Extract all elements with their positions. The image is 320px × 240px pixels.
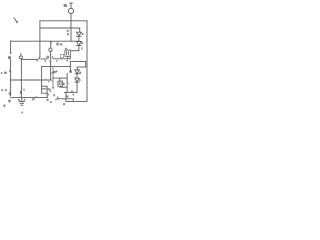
vertical x53	[52, 66, 54, 88]
component box R2	[42, 86, 48, 93]
tick below y80 junction	[52, 81, 53, 82]
D2 lower label	[81, 47, 83, 49]
wire y59 right segment	[54, 58, 71, 60]
D3 label	[79, 72, 81, 74]
wire y98.8	[58, 98, 73, 100]
current label row	[56, 43, 58, 46]
lower diode D3	[75, 70, 80, 74]
label 16 (supply)	[64, 4, 67, 7]
wire between diodes	[78, 36, 80, 41]
label right of wire	[52, 56, 54, 58]
label above box R1	[65, 48, 67, 50]
pin label text	[67, 30, 69, 32]
connector box corner	[69, 56, 71, 59]
arc joining vertical to horizontal	[37, 56, 40, 59]
vertical x41.6 down	[41, 66, 43, 86]
label 12	[8, 56, 11, 59]
wire to current source	[22, 58, 36, 60]
tick on y80	[45, 79, 46, 80]
label left	[56, 70, 58, 72]
figure pointer arrow	[14, 18, 18, 24]
tick on left wire	[9, 71, 11, 72]
input wire left with arrowhead	[10, 41, 12, 54]
wire diode stack to box R1	[70, 50, 79, 52]
vertical x67.1	[66, 74, 68, 93]
ground bars	[19, 101, 24, 105]
wire below R3	[60, 86, 67, 88]
outer box right edge	[86, 21, 88, 102]
vertical from I2 down to y80	[50, 52, 52, 81]
faint label below ground	[21, 112, 23, 114]
lower diode D4	[75, 78, 80, 82]
blob on x67.1	[67, 83, 69, 85]
blob on x53	[53, 71, 55, 73]
label box left of R1	[61, 54, 64, 57]
current source circle I2	[49, 48, 52, 51]
branch arrow below y41 at x50.8	[50, 42, 52, 44]
wire y66	[42, 65, 71, 67]
label pair near y61	[45, 60, 46, 62]
tiny label under wire	[36, 60, 38, 61]
D4 label	[79, 79, 81, 81]
vertical from circle down	[20, 59, 22, 97]
hook blob near bottom of left wire	[9, 92, 10, 95]
supply stub wire	[70, 3, 72, 8]
wire below D2	[78, 46, 80, 51]
arrowhead onto bottom rail	[10, 95, 12, 97]
stub below box R1	[67, 56, 69, 59]
label left of R3	[48, 81, 49, 82]
blob on wire	[20, 91, 21, 94]
corner down to diode stack	[79, 28, 81, 32]
ground stub	[21, 97, 23, 101]
wire y92.4	[64, 91, 77, 93]
supply circle	[68, 8, 73, 13]
vertical x59.8 to box R3	[59, 78, 61, 81]
mid rail y41	[11, 40, 80, 42]
tick cap	[66, 73, 68, 74]
tick at wire end	[47, 56, 50, 59]
upper diode D2	[76, 42, 81, 46]
vertical x65.9 to bottom edge	[65, 92, 67, 101]
labels near ground	[18, 99, 20, 101]
component box R3	[58, 81, 63, 86]
label right	[23, 89, 25, 91]
supply terminal tick	[70, 2, 73, 4]
bottom rail left	[11, 96, 48, 98]
label 30	[32, 98, 34, 100]
label right of R3	[63, 83, 65, 85]
D1 label	[82, 33, 84, 35]
label below R2	[47, 99, 49, 101]
component box R1	[65, 50, 71, 56]
label right of R2	[47, 94, 49, 96]
second rail y28	[40, 27, 80, 29]
outer box bottom edge	[66, 101, 87, 103]
vertical x70.4 rail link	[69, 61, 71, 70]
wire below D4	[76, 82, 78, 92]
vertical x73.2	[72, 99, 74, 102]
lead tick through rail	[34, 96, 36, 99]
current source circle I1	[19, 56, 22, 59]
stub below box R2	[46, 93, 48, 97]
stub above circle	[20, 54, 22, 56]
junction dots	[21, 20, 72, 98]
upper diode D1	[76, 32, 81, 36]
feed into lower diode stack	[76, 67, 78, 70]
blob right of wire y72	[52, 72, 54, 74]
D2 label	[81, 42, 83, 44]
wire between lower diodes	[76, 74, 78, 78]
wire y59 left segment	[41, 58, 47, 60]
lower area labels	[71, 91, 73, 93]
tick on vertical above arc	[39, 53, 40, 54]
corner down x85.7	[85, 61, 87, 67]
left wire continues down	[10, 59, 12, 94]
wire y67	[77, 66, 86, 68]
wire supply to rail	[70, 14, 72, 21]
label 36	[48, 88, 51, 90]
left branch vertical from rail	[39, 21, 41, 56]
middle rung	[42, 88, 48, 90]
labels above y66 wire	[56, 60, 58, 61]
top rail wire	[40, 20, 87, 22]
wire y78	[53, 77, 68, 79]
blob at x70.4	[69, 70, 72, 72]
wire y80	[11, 79, 52, 81]
wire y61.4	[70, 60, 85, 62]
vertical x71 rail to node	[70, 21, 72, 41]
tick label right of arrow	[57, 42, 58, 43]
